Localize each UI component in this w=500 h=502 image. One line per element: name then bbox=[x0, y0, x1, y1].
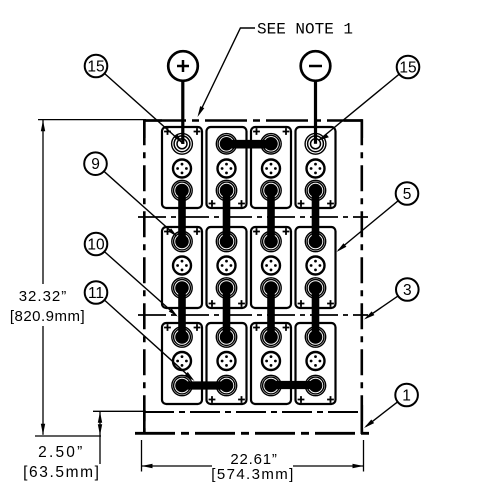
balloon 15 (left) bbox=[85, 55, 108, 78]
battery B6 vent cap bbox=[218, 257, 236, 275]
height dimension extension line (bottom) bbox=[35, 435, 101, 437]
battery B8 bottom terminal post bbox=[305, 278, 325, 298]
battery B10 polarity mark + bbox=[238, 396, 245, 403]
battery B9 top terminal post bbox=[172, 327, 192, 347]
height dimension extension line (top) bbox=[38, 119, 146, 121]
battery B2 bottom terminal post bbox=[216, 180, 236, 200]
rack frame corner reinforcements bbox=[144, 121, 361, 434]
battery B2 polarity mark + bbox=[209, 200, 216, 207]
battery B11 top terminal post bbox=[261, 327, 281, 347]
balloon 1 bbox=[395, 384, 418, 407]
positive feed cable bbox=[181, 80, 184, 144]
battery B2 vent cap bbox=[218, 160, 236, 178]
battery B4 polarity mark + bbox=[298, 200, 305, 207]
shelf separator line between tier 2 and tier 3 bbox=[138, 314, 368, 316]
battery B3 bottom terminal post bbox=[261, 180, 281, 200]
svg-text:10: 10 bbox=[87, 236, 105, 253]
battery B6 (row 2, col 2) outline bbox=[207, 227, 247, 308]
inter-tier cable col 4: row1 bottom to row2 top bbox=[312, 191, 320, 242]
intercell jumper row3: B11 bottom to B12 bottom bbox=[270, 381, 318, 389]
battery B1 vent cap bbox=[173, 160, 191, 178]
battery B5 (row 2, col 1) outline bbox=[162, 227, 202, 308]
rack base top dashed line bbox=[144, 411, 362, 413]
battery B9 vent cap bbox=[173, 352, 191, 370]
svg-text:9: 9 bbox=[91, 156, 100, 173]
base dimension arrow down bbox=[98, 424, 102, 435]
battery B5 vent cap bbox=[173, 257, 191, 275]
battery B11 bottom terminal post bbox=[261, 375, 281, 395]
svg-text:15: 15 bbox=[399, 59, 416, 76]
shelf separator line between tier 1 and tier 2 bbox=[138, 216, 368, 218]
leader from balloon 9 to B5 top terminal bbox=[104, 171, 176, 235]
battery B12 vent cap bbox=[307, 352, 325, 370]
battery B7 polarity mark + bbox=[253, 228, 260, 235]
intercell jumper row1: B2 top to B3 top bbox=[225, 140, 273, 149]
battery B9 polarity mark + bbox=[194, 324, 201, 331]
battery B1 top terminal post (cable lug) bbox=[172, 133, 193, 154]
height dimension arrow down bbox=[41, 424, 45, 435]
rack frame top edge (phantom line) bbox=[144, 119, 362, 122]
inter-tier cable col 1: row2 bottom to row3 top bbox=[178, 288, 186, 337]
arrowhead of leader 10 bbox=[169, 308, 178, 316]
battery B12 polarity mark + bbox=[327, 396, 334, 403]
battery B5 bottom terminal post bbox=[172, 278, 192, 298]
balloon 9 bbox=[84, 152, 107, 175]
battery B10 polarity mark + bbox=[209, 396, 216, 403]
arrowhead of leader 1 bbox=[364, 420, 374, 429]
leader from balloon 3 to rack side rail bbox=[366, 296, 398, 318]
width dimension arrow left bbox=[142, 464, 153, 468]
battery B11 (row 3, col 3) outline bbox=[251, 323, 291, 404]
battery B6 top terminal post bbox=[216, 231, 236, 251]
battery B3 top terminal post bbox=[261, 134, 281, 154]
base height dimension line 2.50in bbox=[99, 411, 101, 464]
balloon 5 bbox=[396, 182, 419, 205]
base height extension line bbox=[93, 410, 146, 412]
arrowhead of SEE NOTE leader bbox=[198, 106, 205, 117]
battery B1 polarity mark + bbox=[164, 128, 171, 135]
svg-text:[820.9mm]: [820.9mm] bbox=[10, 308, 85, 325]
arrowhead of leader 9 bbox=[168, 228, 177, 236]
battery B10 top terminal post bbox=[216, 327, 236, 347]
inter-tier cable col 2: row1 bottom to row2 top bbox=[223, 191, 231, 242]
width dimension line 22.61in bbox=[142, 465, 213, 467]
battery B4 bottom terminal post bbox=[305, 180, 325, 200]
battery B4 (row 1, col 4) outline bbox=[296, 127, 336, 208]
battery B12 top terminal post bbox=[305, 327, 325, 347]
battery B11 vent cap bbox=[262, 352, 280, 370]
battery B7 top terminal post bbox=[261, 231, 281, 251]
svg-text:SEE NOTE 1: SEE NOTE 1 bbox=[257, 21, 353, 39]
inter-tier cable col 4: row2 bottom to row3 top bbox=[312, 288, 320, 337]
battery B12 (row 3, col 4) outline bbox=[296, 323, 336, 404]
battery B3 (row 1, col 3) outline bbox=[251, 127, 291, 208]
balloon 11 bbox=[85, 281, 108, 304]
battery B12 bottom terminal post bbox=[305, 375, 325, 395]
height dimension line 32.32in bbox=[42, 120, 44, 284]
battery B6 bottom terminal post bbox=[216, 278, 236, 298]
leader from SEE NOTE 1 text to rack top edge bbox=[199, 28, 255, 114]
balloon 3 bbox=[396, 278, 419, 301]
svg-text:15: 15 bbox=[87, 58, 104, 75]
width dimension extension line (left) bbox=[141, 440, 143, 472]
balloon 10 bbox=[85, 233, 108, 256]
rack frame left edge (phantom line) bbox=[143, 119, 146, 434]
svg-text:5: 5 bbox=[403, 186, 412, 203]
battery B8 top terminal post bbox=[305, 231, 325, 251]
battery B8 vent cap bbox=[307, 257, 325, 275]
battery B4 vent cap bbox=[307, 160, 325, 178]
intercell jumper row3: B9 bottom to B10 bottom bbox=[181, 381, 229, 389]
svg-text:11: 11 bbox=[88, 285, 104, 302]
rack frame right edge (phantom line) bbox=[360, 119, 363, 434]
battery B1 (row 1, col 1) outline bbox=[162, 127, 202, 208]
svg-text:2.50”: 2.50” bbox=[38, 444, 84, 461]
battery B2 (row 1, col 2) outline bbox=[207, 127, 247, 208]
battery B7 polarity mark + bbox=[283, 228, 290, 235]
battery B5 top terminal post bbox=[172, 231, 192, 251]
battery B4 top terminal post (cable lug) bbox=[305, 133, 326, 154]
battery B3 polarity mark + bbox=[253, 128, 260, 135]
inter-tier cable col 2: row2 bottom to row3 top bbox=[223, 288, 231, 337]
inter-tier cable col 1: row1 bottom to row2 top bbox=[178, 191, 186, 242]
arrowhead of leader 3 bbox=[364, 311, 374, 319]
battery B1 bottom terminal post bbox=[172, 180, 192, 200]
battery B6 polarity mark + bbox=[238, 300, 245, 307]
base dimension arrow up bbox=[98, 412, 102, 423]
battery B7 bottom terminal post bbox=[261, 278, 281, 298]
battery B2 polarity mark + bbox=[238, 200, 245, 207]
leader from balloon 15 (left) to B1 top terminal bbox=[174, 134, 182, 143]
battery B7 (row 2, col 3) outline bbox=[251, 227, 291, 308]
height dimension arrow up bbox=[41, 120, 45, 131]
battery B8 (row 2, col 4) outline bbox=[296, 227, 336, 308]
battery B3 vent cap bbox=[262, 160, 280, 178]
battery B8 polarity mark + bbox=[327, 300, 334, 307]
battery B5 polarity mark + bbox=[164, 228, 171, 235]
leader from balloon 11 to row3 jumper bbox=[105, 300, 192, 378]
svg-text:32.32”: 32.32” bbox=[19, 288, 68, 305]
battery B10 bottom terminal post bbox=[216, 375, 236, 395]
rack frame bottom edge (phantom line) bbox=[135, 432, 370, 435]
inter-tier cable col 3: row1 bottom to row2 top bbox=[267, 191, 275, 242]
battery B6 polarity mark + bbox=[209, 300, 216, 307]
battery B7 vent cap bbox=[262, 257, 280, 275]
leader from balloon 15 (right) to B4 top terminal bbox=[319, 134, 329, 141]
svg-text:3: 3 bbox=[403, 282, 412, 299]
battery B1 polarity mark + bbox=[194, 128, 201, 135]
arrowhead of leader 5 bbox=[337, 243, 347, 252]
width dimension extension line (right) bbox=[363, 440, 365, 472]
battery B2 top terminal post bbox=[216, 134, 236, 154]
battery B12 polarity mark + bbox=[298, 396, 305, 403]
inter-tier cable col 3: row2 bottom to row3 top bbox=[267, 288, 275, 337]
arrowhead of leader 11 bbox=[185, 372, 195, 381]
positive terminal symbol (+) bbox=[168, 51, 198, 81]
battery B11 polarity mark + bbox=[283, 324, 290, 331]
svg-text:1: 1 bbox=[402, 387, 411, 404]
width dimension arrow right bbox=[353, 464, 364, 468]
negative terminal symbol (-) bbox=[301, 51, 331, 81]
leader from balloon 10 to tier-2/3 cable bbox=[104, 252, 176, 316]
leader from balloon 1 to rack bottom corner bbox=[366, 402, 398, 427]
leader from balloon 5 to battery B8 bbox=[338, 201, 398, 251]
svg-text:[63.5mm]: [63.5mm] bbox=[23, 464, 100, 481]
battery B11 polarity mark + bbox=[253, 324, 260, 331]
battery B8 polarity mark + bbox=[298, 300, 305, 307]
battery B10 (row 3, col 2) outline bbox=[207, 323, 247, 404]
battery B4 polarity mark + bbox=[327, 200, 334, 207]
balloon 15 (right) bbox=[397, 56, 420, 79]
battery B9 polarity mark + bbox=[164, 324, 171, 331]
battery B3 polarity mark + bbox=[283, 128, 290, 135]
battery B9 (row 3, col 1) outline bbox=[162, 323, 202, 404]
svg-text:[574.3mm]: [574.3mm] bbox=[211, 466, 294, 483]
battery B5 polarity mark + bbox=[194, 228, 201, 235]
negative feed cable bbox=[314, 80, 317, 144]
battery B9 bottom terminal post bbox=[172, 375, 192, 395]
battery B10 vent cap bbox=[218, 352, 236, 370]
